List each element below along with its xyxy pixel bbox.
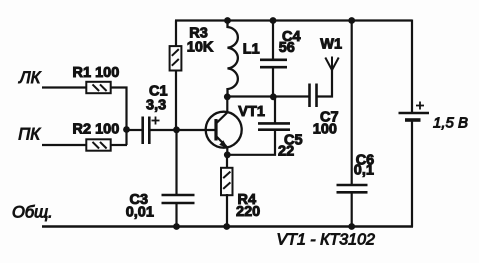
wire battery negative drop bbox=[411, 121, 413, 227]
polarity plus of battery bbox=[416, 102, 424, 110]
junction mixer node bbox=[123, 126, 130, 133]
svg-text:22: 22 bbox=[278, 144, 294, 160]
svg-text:ПК: ПК bbox=[18, 126, 41, 144]
battery G1 1,5V bbox=[399, 113, 430, 120]
node C4 top on rail bbox=[270, 17, 277, 24]
svg-text:100: 100 bbox=[313, 122, 337, 138]
wire base node down to C3 bbox=[175, 130, 177, 195]
wire R3 to base node bbox=[175, 71, 177, 130]
wire collector up bbox=[226, 97, 228, 113]
svg-text:3,3: 3,3 bbox=[146, 98, 166, 114]
node C6 top on rail bbox=[348, 17, 355, 24]
node C3 on common rail bbox=[173, 223, 180, 230]
capacitor C3 bbox=[162, 195, 195, 203]
wire bottom common rail bbox=[42, 225, 413, 227]
node tank junction bbox=[270, 93, 277, 100]
wire ПК input lead bbox=[42, 144, 86, 146]
capacitor C5 bbox=[258, 123, 290, 129]
node C6 on common rail bbox=[348, 223, 355, 230]
wire C5 bottom lead to emitter bbox=[227, 130, 275, 155]
svg-text:0,01: 0,01 bbox=[126, 205, 154, 221]
wire C4 to tank bus bbox=[272, 67, 274, 97]
polarity plus of C1 bbox=[152, 117, 160, 125]
wire C1 to base node bbox=[149, 129, 177, 131]
wire rail to C6 bbox=[351, 21, 353, 186]
resistor R3 bbox=[170, 46, 182, 70]
resistor R1 bbox=[86, 82, 110, 93]
wire C5 top lead bbox=[274, 97, 276, 123]
svg-text:10K: 10K bbox=[187, 39, 214, 55]
node R4 on common rail bbox=[223, 223, 230, 230]
svg-text:220: 220 bbox=[236, 204, 260, 220]
wire C3 to common rail bbox=[175, 203, 177, 227]
node collector junction bbox=[224, 93, 231, 100]
svg-text:R1 100: R1 100 bbox=[73, 65, 120, 81]
resistor R2 bbox=[86, 139, 110, 150]
svg-text:1,5 В: 1,5 В bbox=[433, 114, 468, 131]
capacitor C6 bbox=[337, 185, 368, 192]
svg-text:R2 100: R2 100 bbox=[73, 122, 120, 138]
wire ЛК input lead bbox=[42, 86, 86, 88]
wire C7 to antenna bbox=[317, 70, 333, 97]
wire emitter down bbox=[226, 147, 228, 155]
svg-text:Общ.: Общ. bbox=[12, 204, 53, 222]
wire R2 to junction bbox=[112, 144, 128, 146]
wire R1 to junction bbox=[112, 88, 127, 146]
wire collector bus to C7 bbox=[226, 95, 309, 97]
wire base node to transistor base bbox=[177, 129, 216, 131]
resistor R4 bbox=[221, 168, 233, 195]
svg-text:VT1 - КТ3102: VT1 - КТ3102 bbox=[277, 232, 375, 249]
wire top supply rail bbox=[175, 19, 412, 21]
svg-text:L1: L1 bbox=[243, 42, 260, 58]
antenna W1 bbox=[325, 57, 338, 71]
wire R4 to common rail bbox=[226, 194, 228, 227]
wire top rail to R3 bbox=[175, 21, 177, 46]
svg-text:VT1: VT1 bbox=[238, 104, 265, 120]
node base junction bbox=[173, 126, 180, 133]
svg-text:W1: W1 bbox=[320, 36, 342, 52]
wire junction to C1 bbox=[127, 129, 143, 131]
wire rail to C4 bbox=[272, 21, 274, 60]
svg-text:56: 56 bbox=[279, 40, 295, 56]
node emitter junction bbox=[224, 151, 231, 158]
capacitor C7 bbox=[310, 84, 317, 108]
wire C6 to common rail bbox=[351, 192, 353, 227]
svg-text:0,1: 0,1 bbox=[354, 163, 374, 179]
inductor L1 bbox=[228, 21, 238, 98]
svg-text:ЛК: ЛК bbox=[18, 69, 41, 87]
capacitor C4 bbox=[260, 60, 287, 67]
wire battery positive drop bbox=[411, 20, 413, 113]
node L1 top on rail bbox=[224, 17, 231, 24]
wire emitter to R4 bbox=[226, 155, 228, 168]
capacitor C1 (electrolytic) bbox=[143, 117, 150, 145]
transistor VT1 bbox=[206, 112, 242, 149]
